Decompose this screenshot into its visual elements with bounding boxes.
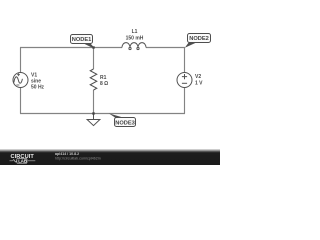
svg-text:50 Hz: 50 Hz <box>31 85 45 91</box>
svg-text:LAB: LAB <box>18 159 27 164</box>
svg-text:http://circuitlab.com/cpt4b2m: http://circuitlab.com/cpt4b2m <box>55 157 101 161</box>
svg-text:NODE3: NODE3 <box>115 120 135 126</box>
svg-text:8 Ω: 8 Ω <box>100 81 108 87</box>
svg-text:V2: V2 <box>195 74 201 80</box>
svg-text:1 V: 1 V <box>195 80 203 86</box>
svg-text:R1: R1 <box>100 75 107 81</box>
svg-text:150 mH: 150 mH <box>126 35 144 41</box>
svg-text:sine: sine <box>31 79 41 85</box>
svg-text:NODE1: NODE1 <box>72 37 92 43</box>
svg-text:V1: V1 <box>31 72 37 78</box>
svg-text:NODE2: NODE2 <box>189 36 209 42</box>
svg-text:L1: L1 <box>132 29 138 35</box>
svg-text:apl414 / 10.8.2: apl414 / 10.8.2 <box>55 152 79 156</box>
